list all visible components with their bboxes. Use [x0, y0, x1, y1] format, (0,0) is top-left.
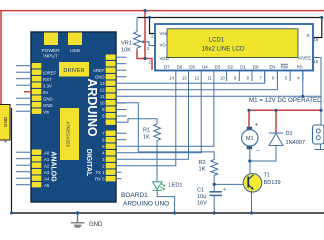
svg-text:GND: GND	[43, 96, 53, 101]
pin labels left power header	[43, 70, 57, 114]
svg-text:D4: D4	[202, 64, 208, 69]
svg-text:GND: GND	[95, 74, 105, 79]
wire red left horizontal into GND terminal	[1, 105, 10, 107]
svg-text:RST: RST	[43, 77, 52, 82]
svg-text:D6: D6	[177, 64, 183, 69]
connector CON right edge	[313, 125, 324, 150]
svg-text:DIGITAL: DIGITAL	[85, 149, 92, 177]
wire red VR1 bottom to VDD	[137, 50, 145, 59]
svg-text:RS: RS	[297, 64, 303, 69]
svg-text:INPUT: INPUT	[43, 54, 57, 60]
svg-text:RX 0: RX 0	[95, 176, 105, 181]
svg-text:13: 13	[100, 81, 105, 86]
LCD bottom pin numbers	[169, 76, 300, 81]
svg-text:BOARD1: BOARD1	[121, 192, 148, 199]
svg-text:11: 11	[100, 94, 105, 99]
svg-text:3.3V: 3.3V	[43, 83, 52, 88]
LED LED1	[153, 182, 166, 191]
wire red 12V rail	[249, 109, 320, 111]
LCD right pin stubs	[313, 57, 321, 59]
svg-text:D2: D2	[227, 64, 233, 69]
svg-text:1N4007: 1N4007	[286, 140, 306, 146]
LCD bottom pin labels	[164, 64, 303, 69]
motor M1	[242, 123, 260, 155]
svg-text:VO: VO	[160, 43, 167, 48]
svg-text:POWER: POWER	[41, 48, 60, 54]
svg-text:5V: 5V	[43, 90, 48, 95]
svg-text:TX 1: TX 1	[95, 170, 105, 175]
wire red left edge vertical	[0, 11, 2, 106]
resistor R1	[154, 122, 161, 143]
label RW overline	[281, 63, 288, 65]
svg-text:LED1: LED1	[169, 183, 183, 189]
wire motor minus to collector node	[249, 149, 251, 161]
wire Vss to ground line	[150, 18, 157, 34]
wire 5V red top bus	[0, 10, 324, 12]
svg-text:−: −	[256, 149, 260, 155]
svg-text:AREF: AREF	[93, 68, 105, 73]
wire T1 emitter to ground	[251, 191, 253, 213]
IC ATMEGA328	[60, 108, 79, 160]
wire diode bottom link	[250, 146, 276, 162]
pin labels analog A0-A5	[44, 150, 50, 188]
svg-text:+: +	[223, 187, 226, 193]
Arduino left power header pads	[32, 63, 42, 114]
wire LCD D7 to pin2 staircase	[116, 81, 176, 166]
svg-text:D1: D1	[240, 64, 246, 69]
svg-text:M1: M1	[246, 136, 254, 142]
svg-text:16: 16	[314, 37, 319, 42]
svg-text:13: 13	[182, 76, 187, 81]
pin labels right top header	[93, 68, 105, 119]
svg-text:VDD: VDD	[160, 56, 169, 61]
svg-text:GND: GND	[3, 116, 8, 127]
diode D1 1N4007	[269, 110, 283, 145]
svg-text:Vin: Vin	[43, 109, 50, 114]
Arduino left analog header pads	[32, 150, 42, 188]
svg-text:A0: A0	[44, 150, 50, 155]
svg-text:ARDUINO UNO: ARDUINO UNO	[123, 200, 169, 207]
svg-text:USB: USB	[70, 48, 80, 54]
svg-text:ARDUINO: ARDUINO	[85, 78, 99, 137]
connector USB block	[68, 33, 82, 46]
svg-text:T1: T1	[264, 173, 271, 179]
resistor R2	[211, 158, 218, 184]
wire ground bus bottom	[12, 212, 324, 214]
svg-text:D3: D3	[215, 64, 221, 69]
LCD LCD1 module	[155, 24, 313, 71]
ground symbol below bus	[71, 213, 85, 228]
svg-text:M1 = 12V DC OPERATED P: M1 = 12V DC OPERATED P	[249, 97, 324, 104]
connector POWER INPUT block	[44, 33, 58, 46]
connector GND terminal (left edge)	[0, 105, 10, 141]
svg-text:VR1: VR1	[121, 41, 132, 47]
svg-text:1K: 1K	[199, 166, 206, 172]
wire red motor feed	[248, 110, 250, 126]
wire R1 feed	[116, 119, 158, 123]
wire red 5V stub	[24, 91, 32, 93]
svg-text:10: 10	[220, 76, 225, 81]
wire LCD data bus H3 pin11 to LCD RS	[116, 95, 322, 97]
LCD bottom pin ticks	[176, 71, 303, 82]
wire right stubs top header unconnected	[116, 57, 127, 116]
wire black left ground drop	[11, 108, 13, 213]
svg-text:RW: RW	[281, 64, 289, 69]
wire red 5V drop to VDD	[145, 11, 152, 70]
svg-text:+: +	[4, 140, 7, 146]
svg-text:12: 12	[100, 87, 105, 92]
svg-text:14: 14	[169, 76, 174, 81]
svg-text:K: K	[307, 33, 310, 38]
potentiometer VR1	[134, 18, 155, 51]
wire R2 feed from pin10	[116, 103, 215, 158]
svg-text:D7: D7	[164, 64, 170, 69]
wire LCD data bus H2 pin12 to LCD EN	[116, 71, 278, 90]
IC driver block	[59, 62, 89, 77]
svg-text:D1: D1	[286, 131, 293, 137]
svg-text:15: 15	[314, 59, 319, 64]
svg-text:+: +	[255, 123, 259, 129]
svg-text:LCD1: LCD1	[209, 38, 225, 44]
svg-text:11: 11	[208, 76, 213, 81]
svg-text:ANALOG: ANALOG	[50, 151, 57, 182]
wire T1 collector to motor node	[249, 161, 251, 173]
wire LCD data bus H1 pin13 to LCD D0	[116, 71, 265, 84]
svg-text:A1: A1	[44, 157, 50, 162]
wire LCD D4 to pin5 staircase	[116, 81, 214, 146]
svg-text:D5: D5	[189, 64, 195, 69]
svg-text:A5: A5	[44, 183, 50, 188]
svg-text:A4: A4	[44, 176, 50, 181]
transistor T1	[243, 174, 262, 193]
svg-text:IOREF: IOREF	[43, 70, 57, 75]
wire R1 to LED1	[156, 143, 158, 181]
svg-text:R1: R1	[143, 127, 150, 133]
wire LED1 cathode to ground bus	[157, 190, 174, 213]
svg-text:16V: 16V	[197, 201, 207, 207]
wire LCD RS drop	[302, 71, 304, 97]
wire left stubs power header	[16, 66, 32, 112]
wire base wire to T1	[214, 183, 244, 185]
svg-text:10K: 10K	[121, 48, 131, 54]
wire left stubs analog header	[16, 152, 32, 185]
wire A/VEE drop to connector	[320, 58, 322, 126]
svg-text:EN: EN	[269, 64, 275, 69]
svg-text:12: 12	[195, 76, 200, 81]
svg-text:R2: R2	[199, 160, 206, 166]
Arduino right digital header pads	[106, 131, 116, 182]
svg-text:A3: A3	[44, 170, 50, 175]
svg-text:D0: D0	[253, 64, 259, 69]
svg-text:10u: 10u	[197, 194, 206, 200]
Arduino board BOARD1	[31, 32, 116, 202]
pin labels right digital header	[95, 131, 105, 182]
wire LCD D6 to pin3 staircase	[116, 81, 189, 159]
wire right stubs digital unconnected	[116, 133, 127, 179]
svg-text:C1: C1	[197, 188, 204, 194]
svg-text:GND: GND	[89, 222, 103, 228]
svg-text:10: 10	[100, 100, 105, 105]
svg-text:16x2 LINE LCD: 16x2 LINE LCD	[202, 46, 246, 53]
svg-text:GND: GND	[43, 103, 53, 108]
svg-text:A/VEE: A/VEE	[298, 56, 311, 61]
svg-text:BD139: BD139	[264, 180, 281, 186]
Arduino right top header pads	[106, 55, 116, 125]
svg-text:DRIVER: DRIVER	[63, 68, 84, 74]
wire black LCD ground line	[138, 18, 322, 38]
capacitor C1	[210, 184, 223, 213]
svg-text:Vss: Vss	[160, 31, 168, 36]
svg-text:A2: A2	[44, 163, 50, 168]
svg-text:1K: 1K	[143, 135, 150, 141]
wire LCD D5 to pin4 staircase	[116, 81, 202, 153]
svg-text:ATMEGA328: ATMEGA328	[66, 121, 71, 147]
